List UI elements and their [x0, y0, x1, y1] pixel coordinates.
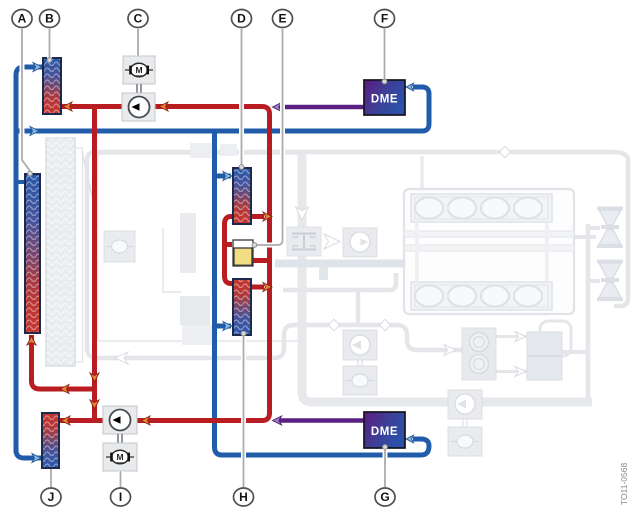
svg-text:TO11-0568: TO11-0568	[619, 463, 629, 505]
leader D	[241, 29, 243, 165]
shroud diagonal	[82, 152, 97, 218]
leader I	[120, 471, 122, 487]
DME control unit G	[364, 412, 405, 448]
wire blue main left vertical with elbows to B and J	[16, 67, 42, 458]
label A	[12, 10, 32, 28]
bg right vertical x588	[586, 224, 591, 400]
wire red top horizontal + right vertical + bottom horizontal	[61, 107, 270, 421]
leader end dots	[28, 58, 388, 450]
wire blue stub to radiator A	[16, 180, 25, 184]
wire red out of radiator D	[251, 214, 264, 219]
leader A	[22, 29, 30, 171]
wire red loop to radiator A bottom	[32, 335, 95, 389]
engine block (faded)	[404, 189, 574, 314]
radiator H (center lower)	[233, 279, 251, 335]
bg heater band (blue-gray)	[275, 260, 404, 268]
svg-text:M: M	[135, 65, 142, 75]
label C	[128, 10, 148, 28]
coolant pump I	[103, 406, 137, 434]
faded double-circle box	[462, 328, 496, 380]
svg-text:D: D	[237, 12, 246, 26]
electric motor box I	[103, 443, 137, 471]
svg-text:A: A	[18, 12, 27, 26]
svg-text:DME: DME	[371, 94, 398, 106]
DME control unit F	[364, 80, 405, 115]
wire blue center vertical + bottom loop to DME G	[215, 131, 430, 455]
wire red vertical x95	[92, 107, 97, 419]
wire red stub into E	[225, 242, 233, 247]
leader E	[255, 29, 283, 245]
radiator B (heater core top-left)	[43, 58, 61, 114]
faded motor box (mid lower)	[343, 366, 377, 395]
small bracket rects top	[190, 143, 215, 158]
svg-text:H: H	[239, 490, 248, 504]
leader G	[384, 450, 386, 487]
svg-text:DME: DME	[371, 426, 398, 438]
radiator D (center upper)	[233, 168, 251, 224]
leader J	[50, 469, 52, 487]
label I	[111, 488, 131, 506]
white arrows right on y350	[444, 345, 456, 356]
label G	[375, 488, 395, 506]
bg white arrow between boxes	[324, 234, 340, 249]
wire blue stub to radiator H	[215, 324, 232, 329]
wire red bottom to radiator J	[59, 418, 140, 423]
label F	[375, 10, 395, 28]
thermostat symbols (faded, right edge)	[588, 207, 623, 302]
arrows blue	[30, 63, 414, 463]
expansion tank E (white top / yellow body)	[233, 240, 253, 266]
svg-text:M: M	[116, 452, 123, 462]
radiator J (bottom-left)	[42, 413, 59, 468]
faded tank + outline right	[540, 321, 571, 356]
motor-pump connector I	[118, 434, 122, 443]
bg down arrow on pipe	[296, 207, 309, 220]
label H	[234, 488, 254, 506]
white arrow left on y358	[115, 352, 128, 364]
wire blue mid horizontal + loop up to DME F	[14, 87, 429, 131]
arrows purple	[273, 103, 282, 426]
wire blue stub to radiator D	[215, 174, 232, 179]
fan shroud strip	[76, 148, 83, 362]
faded motor box mid-left	[104, 231, 135, 262]
leader F	[384, 29, 386, 79]
wire red out of E right	[252, 258, 270, 263]
label D	[232, 10, 252, 28]
radiator A (left tall cooler)	[25, 174, 40, 333]
label E	[273, 10, 293, 28]
svg-text:C: C	[134, 12, 143, 26]
bg pump box (upper mid)	[343, 228, 377, 257]
svg-text:I: I	[119, 490, 122, 504]
svg-text:J: J	[48, 490, 55, 504]
engine stub	[574, 235, 596, 239]
label B	[40, 10, 60, 28]
coolant pump C	[122, 93, 155, 121]
bg I-beam valve box	[287, 227, 321, 256]
wire red loop D to E to H	[225, 217, 234, 284]
arrows red/orange	[27, 102, 272, 425]
white diamonds	[328, 319, 339, 330]
faded pump box (lower right)	[448, 390, 482, 419]
light columns	[180, 213, 196, 273]
thin panel outline	[98, 154, 299, 341]
faded pump box (mid lower)	[343, 330, 377, 360]
motor-pump connector C	[137, 84, 141, 93]
bg pipe lower chain	[87, 325, 462, 358]
bg pipe main loop	[87, 152, 628, 352]
leader H	[243, 336, 245, 487]
label J	[41, 488, 61, 506]
faded motor box (lower right)	[448, 427, 482, 456]
bg wide vertical pipe x302	[302, 154, 592, 402]
bg pipe y290 + branches	[283, 273, 396, 290]
electric motor box C	[123, 56, 155, 84]
wire red out of radiator H	[251, 285, 264, 290]
engine top stub	[420, 156, 424, 188]
svg-text:F: F	[381, 12, 388, 26]
condenser (faded radiator behind A)	[46, 138, 75, 366]
leader B	[49, 29, 51, 58]
svg-text:G: G	[380, 490, 389, 504]
svg-text:E: E	[278, 12, 286, 26]
leader C	[137, 29, 139, 56]
wire purple DME G	[276, 418, 364, 423]
svg-text:B: B	[45, 12, 54, 26]
wire purple DME F	[276, 105, 364, 110]
